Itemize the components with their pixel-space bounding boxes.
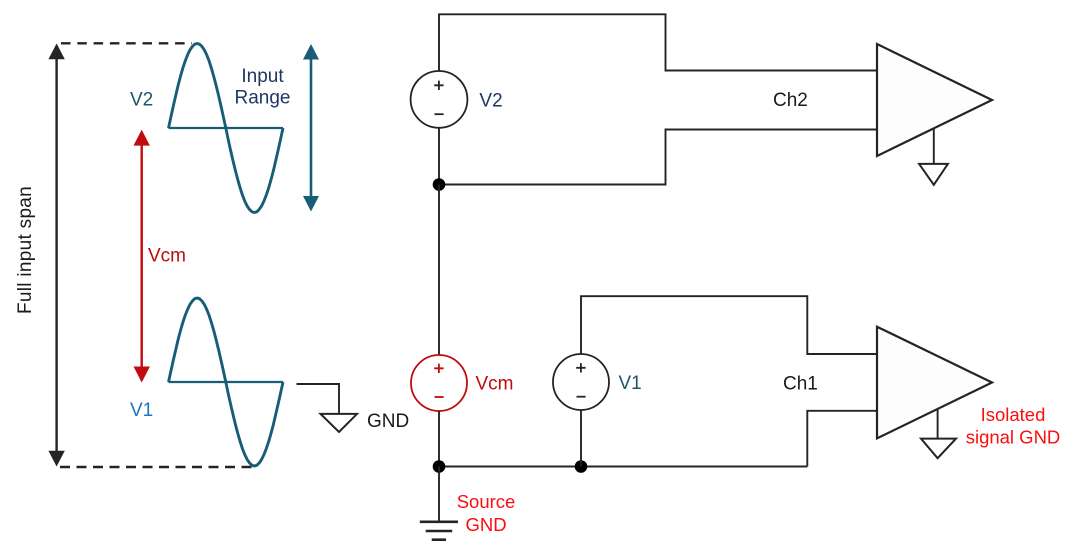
svg-text:Input: Input [241,66,284,87]
full input span double arrow [48,44,64,467]
wire Ch2 gnd stem [933,128,935,163]
ground Ch1 (open triangle) [921,439,956,459]
op-amp Ch1 [877,327,992,439]
node junction V2/Vcm [433,178,446,191]
svg-text:Vcm: Vcm [148,246,186,267]
svg-text:Source: Source [457,491,516,512]
input range double arrow [303,44,319,212]
op-amp Ch2 [877,44,992,156]
dashed line top [61,42,192,44]
svg-text:GND: GND [465,514,506,535]
svg-text:Range: Range [235,88,291,109]
wire Ch1 bottom input [807,411,877,467]
voltage source V2 [411,71,468,128]
ground GND (open triangle) [321,414,358,432]
wire to source ground [438,467,440,522]
wire to GND symbol [297,384,340,414]
sine wave V2 [169,44,284,213]
wire top bus to Ch2 [439,14,877,71]
svg-text:Full input span: Full input span [15,186,36,314]
dashed line bottom [60,466,255,468]
node junction V1 bottom [575,460,588,473]
svg-text:Ch2: Ch2 [773,90,808,111]
svg-text:Isolated: Isolated [981,404,1046,425]
wire Ch1 gnd stem [937,409,939,438]
svg-text:V2: V2 [479,90,502,111]
svg-text:V1: V1 [619,373,642,394]
svg-text:GND: GND [367,411,409,432]
svg-text:Vcm: Vcm [476,373,514,394]
svg-text:V2: V2 [130,90,153,111]
ground Ch2 (open triangle) [919,164,948,185]
wire junction to Vcm [438,185,440,356]
wire Vcm to bottom rail [438,411,440,467]
voltage source V1 [553,354,609,410]
source ground symbol [420,522,458,540]
sine V2 midline [169,127,284,129]
svg-text:signal GND: signal GND [966,426,1061,447]
node junction source GND [433,460,446,473]
wire V1 top bus to Ch1 [581,296,877,354]
voltage source Vcm [411,355,467,411]
sine wave V1 [169,298,284,466]
svg-text:Ch1: Ch1 [783,374,818,395]
wire bottom bus to Ch2 [439,130,877,185]
wire V2 bottom to junction [438,128,440,185]
bottom rail wire [439,466,807,468]
svg-text:V1: V1 [130,400,153,421]
wire V1 bottom [580,410,582,467]
sine V1 midline [169,381,284,383]
Vcm double arrow [134,130,150,383]
